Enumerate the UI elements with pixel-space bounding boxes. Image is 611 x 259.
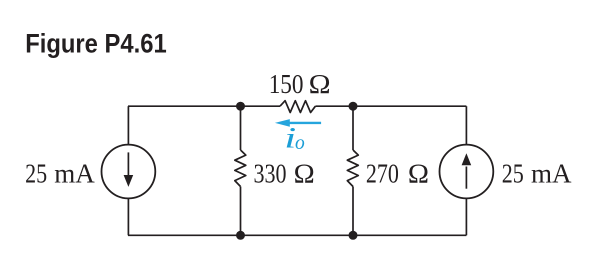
wire from node B down to resistor 270 — [352, 106, 354, 150]
label 150 ohm value — [269, 69, 331, 99]
label 25 mA (right source) — [502, 158, 572, 188]
label 330 ohm value — [254, 158, 315, 188]
svg-text:Ω: Ω — [309, 69, 331, 99]
label 25 mA (left source) — [25, 158, 95, 188]
wire from resistor 270 down to bottom node — [352, 187, 354, 236]
resistor R 150 ohm (horizontal zigzag) — [280, 101, 315, 113]
node B (top-right junction dot) — [349, 102, 358, 111]
title "Figure P4.61" — [25, 28, 167, 58]
svg-text:Ω: Ω — [294, 158, 315, 188]
wire left side bottom (source to bottom wire) — [127, 198, 129, 235]
svg-text:25: 25 — [502, 158, 524, 188]
label i_o — [284, 122, 305, 155]
svg-text:270: 270 — [366, 158, 399, 188]
node C (bottom-left junction dot) — [236, 231, 245, 240]
current source I2 circle (right, 25 mA up) — [440, 145, 494, 199]
svg-text:mA: mA — [54, 158, 95, 188]
svg-text:Ω: Ω — [408, 158, 429, 188]
svg-text:Figure P4.61: Figure P4.61 — [25, 28, 167, 58]
svg-text:150: 150 — [269, 69, 304, 99]
resistor R 270 ohm (vertical zigzag) — [347, 150, 358, 187]
node D (bottom-right junction dot) — [349, 231, 358, 240]
current source I1 circle (left, 25 mA down) — [101, 145, 155, 199]
resistor R 330 ohm (vertical zigzag) — [235, 150, 246, 187]
wire top-left segment — [128, 105, 280, 107]
node A (top-left junction dot) — [236, 102, 245, 111]
current source I1 arrow (downward) — [124, 152, 134, 187]
wire bottom — [128, 234, 466, 236]
wire right side bottom (source to bottom wire) — [465, 198, 467, 235]
current source I2 arrow (upward) — [462, 153, 472, 188]
wire top-right segment — [315, 105, 466, 107]
svg-text:330: 330 — [254, 158, 287, 188]
wire from node A down to resistor 330 — [240, 106, 242, 150]
wire from resistor 330 down to bottom node — [240, 187, 242, 236]
current arrow i_o (blue, pointing left) — [275, 119, 321, 127]
wire right side top (down from top wire to source) — [465, 106, 467, 145]
wire left side top (down from top wire to source) — [127, 106, 129, 145]
svg-text:mA: mA — [531, 158, 572, 188]
svg-text:o: o — [295, 133, 305, 154]
svg-text:25: 25 — [25, 158, 47, 188]
label 270 ohm value — [366, 158, 429, 188]
